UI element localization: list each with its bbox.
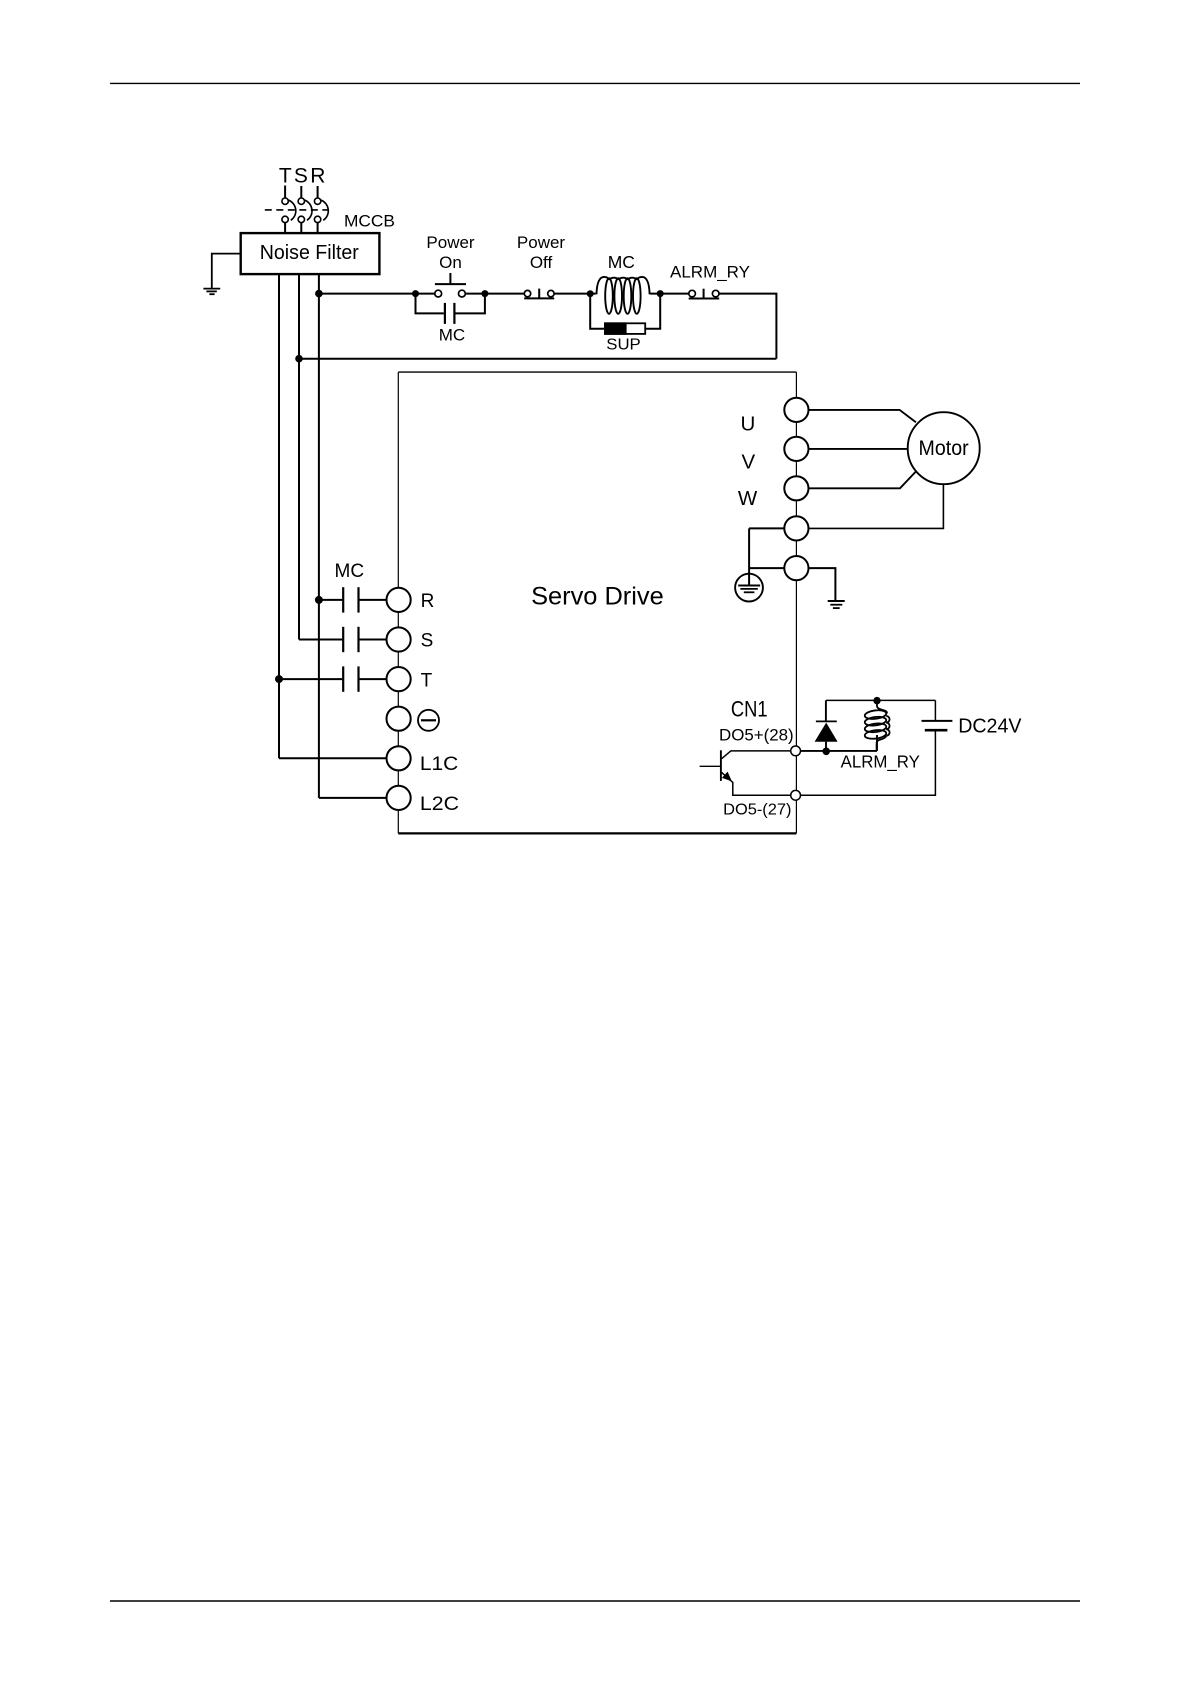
svg-text:W: W <box>738 487 758 510</box>
svg-text:Power: Power <box>426 233 475 252</box>
svg-text:Power: Power <box>517 233 566 252</box>
svg-text:Noise Filter: Noise Filter <box>260 242 359 264</box>
svg-text:S: S <box>294 164 308 187</box>
svg-text:MC: MC <box>439 326 465 345</box>
svg-text:L2C: L2C <box>420 794 459 815</box>
svg-text:Motor: Motor <box>919 437 969 460</box>
svg-text:T: T <box>421 670 433 691</box>
svg-text:MC: MC <box>335 561 365 582</box>
svg-text:DO5-(27): DO5-(27) <box>723 802 791 819</box>
svg-text:ALRM_RY: ALRM_RY <box>670 263 750 282</box>
svg-text:MCCB: MCCB <box>344 213 395 231</box>
svg-text:T: T <box>279 164 292 187</box>
svg-text:SUP: SUP <box>606 337 641 354</box>
svg-text:On: On <box>439 253 462 272</box>
svg-text:CN1: CN1 <box>731 696 768 721</box>
svg-text:DC24V: DC24V <box>958 715 1022 737</box>
svg-text:Off: Off <box>530 253 553 272</box>
svg-text:U: U <box>740 412 755 435</box>
svg-text:V: V <box>742 450 756 473</box>
svg-text:R: R <box>421 591 435 612</box>
svg-text:DO5+(28): DO5+(28) <box>719 727 794 745</box>
svg-text:R: R <box>310 164 325 187</box>
svg-text:L1C: L1C <box>420 754 458 775</box>
svg-text:ALRM_RY: ALRM_RY <box>841 751 921 772</box>
svg-text:S: S <box>421 631 434 652</box>
svg-text:MC: MC <box>608 252 635 272</box>
svg-text:Servo Drive: Servo Drive <box>531 584 664 611</box>
